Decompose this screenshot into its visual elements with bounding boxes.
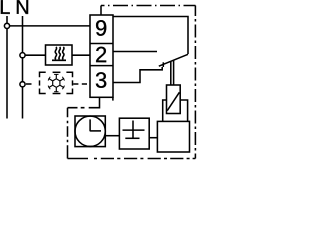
sensor base box	[157, 121, 189, 152]
svg-text:2: 2	[95, 42, 107, 67]
svg-text:9: 9	[95, 15, 107, 40]
enclosure boundary left (dash-dot)	[67, 108, 69, 159]
mechanical link sensor to switch (right line)	[173, 60, 175, 85]
node on N lower (junction circle)	[20, 82, 25, 87]
enclosure boundary top (dash-dot)	[101, 5, 196, 7]
snowflake symbol	[48, 74, 64, 92]
terminal strip box	[90, 15, 113, 97]
enclosure boundary jog up to terminal strip	[89, 97, 100, 107]
temperature sensor element	[167, 85, 181, 114]
wire adjuster to sensor base	[149, 137, 157, 139]
dashed wire N to cooling device	[26, 83, 32, 85]
wire terminal 2 to switch contact	[113, 51, 157, 53]
terminal divider 2/3	[90, 65, 113, 67]
wire heating element to terminal 2	[72, 54, 90, 56]
wire clock to adjuster	[105, 135, 119, 137]
wire terminal 3 to switch contact	[113, 67, 162, 83]
heating element box	[46, 45, 73, 65]
svg-text:L: L	[0, 0, 10, 19]
setpoint adjuster box	[119, 118, 149, 149]
cooling device dashed box	[40, 72, 73, 93]
clock (timer) box	[75, 116, 105, 147]
node on L (junction circle)	[4, 23, 9, 28]
wire L to terminal 9	[10, 25, 90, 27]
wire terminal 9 to switch pivot	[113, 17, 188, 55]
enclosure boundary lower top edge (dash-dot)	[68, 107, 85, 109]
node on N upper (junction circle)	[20, 53, 25, 58]
mechanical link sensor to switch (left line)	[170, 61, 172, 85]
wire N to heating element	[25, 54, 45, 56]
wire N vertical	[22, 16, 24, 119]
svg-text:3: 3	[95, 68, 107, 93]
dashed wire cooling device to terminal 3	[73, 83, 87, 85]
sensor pedestal	[163, 100, 188, 121]
terminal strip right-bottom overshoot tick	[112, 97, 114, 100]
switch blade	[159, 54, 188, 66]
enclosure boundary bottom (dash-dot)	[68, 158, 196, 160]
wire terminal 9 to enclosure top	[100, 6, 102, 16]
terminal divider 9/2	[90, 43, 113, 45]
switch blade arrow tip	[162, 62, 164, 67]
wire L vertical	[6, 16, 8, 119]
enclosure boundary right (dash-dot)	[194, 6, 196, 159]
